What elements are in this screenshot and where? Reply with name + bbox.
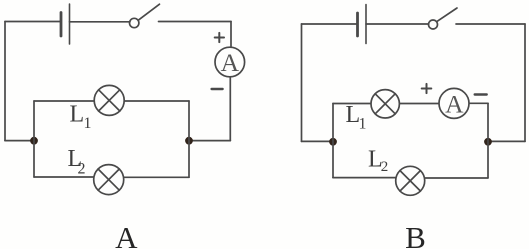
wire: circuit A battery to switch bbox=[70, 21, 131, 23]
svg-text:2: 2 bbox=[381, 159, 389, 175]
wire: circuit A middle-left horizontal to node bbox=[5, 140, 34, 142]
label: L2 (circuit B) bbox=[368, 147, 388, 175]
node: right junction (circuit A) bbox=[186, 137, 193, 144]
ammeter A1 (circuit A) bbox=[215, 47, 245, 77]
label: caption A (circuit A) bbox=[115, 220, 138, 249]
wire: circuit A parallel box left vertical bbox=[33, 101, 35, 177]
label: L1 (circuit B) bbox=[346, 102, 367, 133]
battery B1 (circuit A): short negative plate bbox=[60, 13, 63, 37]
label: L1 (circuit A) bbox=[70, 102, 92, 132]
lamp L2 (circuit A) bbox=[94, 165, 124, 195]
wire: circuit B bottom branch, node to lamp L2 bbox=[333, 177, 395, 179]
wire: circuit B bottom branch, lamp L2 to node bbox=[425, 177, 488, 179]
lamp L1 (circuit B) bbox=[371, 90, 399, 118]
svg-text:1: 1 bbox=[84, 115, 92, 132]
wire: circuit B top-left from battery to corner bbox=[302, 23, 358, 25]
battery B2 (circuit B): short negative plate bbox=[356, 13, 359, 36]
switch S1 (circuit A, open) bbox=[130, 4, 160, 28]
wire: circuit A below ammeter down bbox=[229, 77, 231, 140]
wire: circuit A left vertical bbox=[4, 22, 6, 141]
svg-text:L: L bbox=[70, 102, 85, 128]
svg-text:B: B bbox=[405, 220, 426, 249]
wire: circuit B battery to switch bbox=[366, 23, 429, 25]
node: left junction (circuit A) bbox=[31, 137, 38, 144]
wire: circuit A top branch right segment bbox=[125, 100, 189, 102]
switch S2 (circuit B, open) bbox=[429, 8, 458, 29]
node: right junction (circuit B) bbox=[485, 138, 492, 145]
wire: circuit B switch to top-right corner bbox=[456, 23, 525, 25]
wire: circuit B middle-right horizontal to node bbox=[488, 140, 525, 142]
svg-text:1: 1 bbox=[359, 116, 367, 133]
wire: circuit B parallel box right vertical bbox=[487, 103, 489, 178]
wire: circuit A right vertical down to ammeter bbox=[230, 22, 232, 48]
wire: circuit A bottom branch right segment bbox=[124, 176, 189, 178]
wire: circuit A parallel box right vertical bbox=[188, 101, 190, 177]
wire: circuit A top-left from battery to left corner bbox=[5, 21, 61, 23]
battery B1 (circuit A): long positive plate bbox=[69, 4, 71, 44]
lamp L2 (circuit B) bbox=[396, 166, 425, 195]
label: caption B (circuit B) bbox=[405, 220, 426, 249]
svg-text:A: A bbox=[445, 89, 464, 118]
label: L2 (circuit A) bbox=[68, 146, 86, 178]
lamp L1 (circuit A) bbox=[94, 85, 124, 115]
wire: circuit A switch to top-right corner bbox=[159, 21, 232, 23]
svg-text:A: A bbox=[115, 220, 138, 249]
wire: circuit A bottom branch left segment bbox=[34, 176, 93, 178]
battery B2 (circuit B): long positive plate bbox=[365, 5, 367, 44]
svg-text:2: 2 bbox=[78, 161, 86, 178]
wire: circuit A from right node to ammeter branch bbox=[189, 140, 230, 142]
wire: circuit B parallel box left vertical bbox=[332, 104, 334, 178]
wire: circuit B right vertical bbox=[524, 24, 526, 141]
wire: circuit B top branch, node to lamp L1 bbox=[333, 103, 370, 105]
label: + polarity of ammeter A1 bbox=[215, 33, 224, 42]
label: - polarity of ammeter A1 bbox=[212, 88, 223, 90]
node: left junction (circuit B) bbox=[330, 138, 337, 145]
label: letter A of ammeter A2 bbox=[445, 89, 464, 118]
wire: circuit A top branch left segment bbox=[34, 100, 94, 102]
wire: circuit B middle-left horizontal to node bbox=[302, 140, 334, 142]
label: letter A of ammeter A1 bbox=[221, 48, 240, 77]
label: - polarity of ammeter A2 bbox=[475, 93, 487, 95]
ammeter A2 (circuit B) bbox=[439, 88, 469, 118]
wire: circuit B top branch, ammeter to node bbox=[470, 102, 489, 104]
wire: circuit B top branch, lamp L1 to ammeter bbox=[400, 103, 439, 105]
svg-text:A: A bbox=[221, 48, 240, 77]
wire: circuit B left vertical bbox=[301, 24, 303, 141]
label: + polarity of ammeter A2 bbox=[422, 84, 432, 93]
